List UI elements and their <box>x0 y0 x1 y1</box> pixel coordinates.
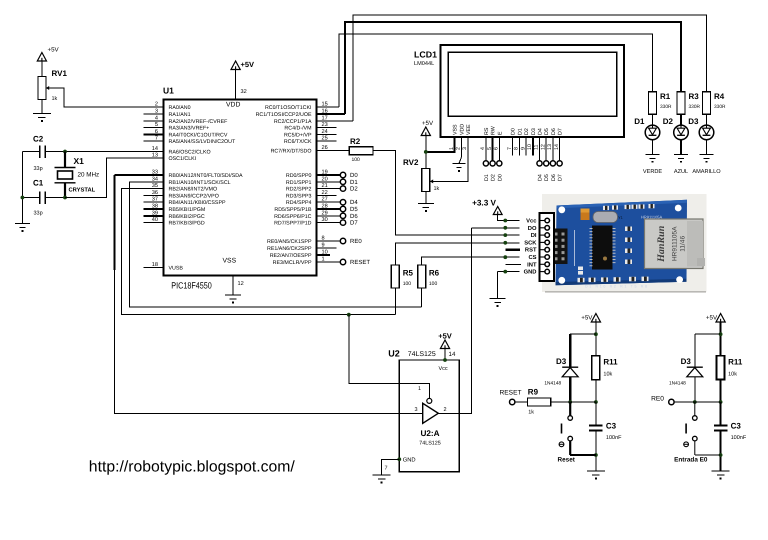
svg-text:7: 7 <box>507 147 513 150</box>
+5V power symbol at U1 VDD <box>231 61 240 70</box>
svg-text:D5: D5 <box>544 174 550 181</box>
+5V power symbol (Entrada E0 circuit) <box>716 314 725 323</box>
U1 pin 34 RB1/AN10/INT1/SCK/SCL <box>144 181 164 183</box>
U1 pin 29 RD6/SPP6/P1C <box>317 215 341 217</box>
svg-text:D0: D0 <box>511 128 517 135</box>
U1 pin 36 RB3/AN9/CCP2/VPO <box>144 194 164 196</box>
svg-text:Entrada E0: Entrada E0 <box>674 457 708 464</box>
svg-text:DI: DI <box>531 233 537 239</box>
svg-text:23: 23 <box>322 122 328 128</box>
U1 pin 6 RA4/T0CKI/C1OUT/RCV <box>144 133 164 135</box>
wire diode to junction (Entrada E0) <box>694 377 696 402</box>
microcontroller U1 PIC18F4550 <box>164 100 317 276</box>
ground below LED D2 <box>674 154 688 162</box>
svg-text:RA3/AN3/VREF+: RA3/AN3/VREF+ <box>169 126 210 132</box>
svg-text:100nF: 100nF <box>731 435 747 441</box>
wire RB0/SDI net horizontal <box>115 174 164 176</box>
diode D3 1N4148 (Reset) <box>562 367 578 377</box>
junction dot bottom (Entrada E0) <box>719 453 723 457</box>
wire R6 top to module CS <box>422 257 520 265</box>
svg-text:RA5/AN4/SS/LVDIN/C2OUT: RA5/AN4/SS/LVDIN/C2OUT <box>169 139 236 145</box>
wire RB0/SDI net to U2 input pin 3 <box>115 270 423 413</box>
U1 pin 5 RA3/AN3/VREF+ <box>144 127 164 129</box>
svg-text:VERDE: VERDE <box>643 169 663 175</box>
svg-text:40: 40 <box>152 217 158 223</box>
svg-text:D5: D5 <box>544 128 550 135</box>
svg-text:U2:A: U2:A <box>420 429 439 438</box>
module pin INT <box>540 263 545 265</box>
svg-text:26: 26 <box>322 145 328 151</box>
svg-text:RC4/D-/VM: RC4/D-/VM <box>284 126 311 132</box>
svg-text:RD7/SPP7/P1D: RD7/SPP7/P1D <box>274 221 312 227</box>
svg-text:330R: 330R <box>660 104 672 110</box>
wire LED D1 to ground <box>652 139 654 154</box>
svg-text:RB2/AN8/INT2/VMO: RB2/AN8/INT2/VMO <box>169 187 218 193</box>
svg-text:RD3/SPP3: RD3/SPP3 <box>286 193 312 199</box>
ground (Entrada E0) <box>712 471 730 479</box>
LCD display LCD1 LM044L <box>441 45 624 137</box>
svg-text:RA0/AN0: RA0/AN0 <box>169 105 191 111</box>
svg-text:1k: 1k <box>434 186 440 192</box>
wire junction to C3 (Entrada E0) <box>719 402 721 425</box>
wire R2 to module DI <box>373 151 520 236</box>
svg-text:330R: 330R <box>714 104 726 110</box>
U1 pin 13 OSC1/CLKI <box>144 157 164 159</box>
svg-text:RC1/T1OSI/CCP2/UOE: RC1/T1OSI/CCP2/UOE <box>256 112 312 118</box>
U1 pin 24 RC5/D+/VP <box>317 133 337 135</box>
LCD pin 10 stub <box>532 137 534 156</box>
svg-text:15: 15 <box>322 102 328 108</box>
svg-text:VUSB: VUSB <box>169 266 184 272</box>
svg-text:AMARILLO: AMARILLO <box>692 169 721 175</box>
svg-text:RC6/TX/CK: RC6/TX/CK <box>284 139 312 145</box>
svg-text:R9: R9 <box>528 388 539 397</box>
wire U2 output pin 2 to module DO <box>438 228 471 413</box>
module pin RST <box>540 249 545 251</box>
svg-text:2: 2 <box>456 147 462 150</box>
wire RV2 to ground <box>425 192 427 204</box>
crystal X1 <box>55 152 76 198</box>
capacitor C3 100nF (Entrada E0) <box>714 426 728 431</box>
svg-text:LM044L: LM044L <box>414 61 434 67</box>
svg-text:RST: RST <box>525 247 537 254</box>
wire RB1 net to R6 bottom <box>130 182 422 307</box>
svg-text:17: 17 <box>322 115 328 121</box>
wire LCD pin 6 to node D0 <box>498 137 500 161</box>
node RE0 <box>669 399 674 404</box>
svg-text:VSS: VSS <box>223 258 237 265</box>
svg-text:7: 7 <box>384 466 387 472</box>
U1 pin 23 RC4/D-/VM <box>317 127 337 129</box>
U1 pin 7 RA5/AN4/SS/LVDIN/C2OUT <box>144 140 164 142</box>
svg-text:D2: D2 <box>524 128 530 135</box>
U2 pin 14 Vcc <box>444 349 446 361</box>
svg-text:RE2/AN7/OESPP: RE2/AN7/OESPP <box>270 253 312 259</box>
svg-text:6: 6 <box>155 129 158 135</box>
ground below RV1 <box>33 114 51 122</box>
U1 pin 4 RA2/AN2/VREF-/CVREF <box>144 120 164 122</box>
module pin Vcc <box>540 220 545 222</box>
wire RV1 wiper to U1 pin 2 (RA0/AN0) <box>46 88 164 107</box>
svg-text:CRYSTAL: CRYSTAL <box>69 187 96 194</box>
junction dot C1 left rail <box>21 196 25 200</box>
svg-text:11: 11 <box>534 144 540 150</box>
svg-text:12: 12 <box>238 281 244 287</box>
wire R11 to junction (Reset) <box>595 380 597 403</box>
svg-text:1k: 1k <box>52 96 58 102</box>
wire left rail C2/C1 to ground <box>21 152 23 224</box>
U1 pin 20 RD1/SPP1 <box>317 181 341 183</box>
svg-text:D2: D2 <box>663 117 674 126</box>
svg-text:R11: R11 <box>603 358 618 367</box>
svg-text:RW: RW <box>491 126 497 135</box>
svg-text:28: 28 <box>322 204 328 210</box>
svg-text:C3: C3 <box>606 422 617 431</box>
wire R4 to LED D3 <box>706 114 708 125</box>
wire diode to junction (Reset) <box>569 377 571 402</box>
wire crystal bottom to U1 pin 13 (OSC1/CLKI) <box>65 158 164 198</box>
svg-text:+3.3 V: +3.3 V <box>472 199 496 208</box>
svg-text:1N4148: 1N4148 <box>544 381 561 387</box>
svg-text:100: 100 <box>403 281 412 287</box>
svg-text:D6: D6 <box>551 174 557 181</box>
junction dot crystal bottom <box>63 196 67 200</box>
wire LCD pin 14 to node D7 <box>559 137 561 161</box>
svg-text:8: 8 <box>514 147 520 150</box>
U1 pin 14 RA6/OSC2/CLKO <box>144 151 164 153</box>
wire C1 left <box>22 197 39 199</box>
U1 pin 38 RB5/KBI1/PGM <box>144 208 164 210</box>
push button (Reset) <box>559 402 572 455</box>
resistor R11 10k (Entrada E0) <box>717 356 725 380</box>
module pin DO <box>540 227 545 229</box>
ground below module GND <box>490 299 506 307</box>
wire R5 top to module SCK <box>395 243 519 265</box>
+5V power symbol at RV2 <box>421 127 430 136</box>
LCD pin 7 stub <box>512 137 514 156</box>
capacitor C3 100nF (Reset) <box>589 426 603 431</box>
svg-text:http://robotypic.blogspot.com/: http://robotypic.blogspot.com/ <box>89 459 296 476</box>
wire C3 to bottom row (Entrada E0) <box>719 431 721 471</box>
svg-text:19: 19 <box>322 170 328 176</box>
svg-text:4: 4 <box>155 115 158 121</box>
LED D2 <box>674 125 689 140</box>
wire R3 to LED D2 <box>680 114 682 125</box>
svg-text:DO: DO <box>528 225 537 232</box>
svg-text:14: 14 <box>152 146 158 152</box>
svg-text:1: 1 <box>418 386 421 392</box>
svg-text:U1: U1 <box>163 86 174 96</box>
svg-text:5: 5 <box>155 122 158 128</box>
svg-text:Y1: Y1 <box>618 215 624 220</box>
+5V power symbol at RV1 <box>37 53 46 62</box>
wire LED D2 to ground <box>680 139 682 154</box>
svg-text:36: 36 <box>152 190 158 196</box>
ground below C1/C2 <box>15 224 30 232</box>
wire LCD pin 13 to node D6 <box>552 137 554 161</box>
wire module DO from U2 output <box>472 227 520 229</box>
svg-text:RA4/T0CKI/C1OUT/RCV: RA4/T0CKI/C1OUT/RCV <box>169 132 228 138</box>
svg-text:RC2/CCP1/P1A: RC2/CCP1/P1A <box>274 119 312 125</box>
resistor R3 330R <box>677 92 685 115</box>
svg-text:RESET: RESET <box>500 390 522 397</box>
svg-text:33p: 33p <box>34 166 43 172</box>
svg-text:R4: R4 <box>714 92 725 101</box>
svg-text:1k: 1k <box>528 410 534 416</box>
svg-text:RV1: RV1 <box>52 69 68 78</box>
svg-text:+5V: +5V <box>48 47 60 54</box>
svg-text:38: 38 <box>152 204 158 210</box>
svg-text:39: 39 <box>152 210 158 216</box>
wire RV1 to ground <box>41 100 43 114</box>
wire button to ground rail (Reset) <box>570 454 596 456</box>
wire C2 right to node <box>45 151 65 153</box>
+5V power symbol at U2 <box>440 340 449 349</box>
U1 pin 3 RA1/AN1 <box>144 113 164 115</box>
svg-text:1N4148: 1N4148 <box>669 381 686 387</box>
svg-text:30: 30 <box>322 217 328 223</box>
svg-text:RB0/AN12/INT0/FLT0/SDI/SDA: RB0/AN12/INT0/FLT0/SDI/SDA <box>169 173 244 179</box>
svg-text:RD2/SPP2: RD2/SPP2 <box>286 187 312 193</box>
svg-text:33p: 33p <box>34 211 43 217</box>
svg-text:RB1/AN10/INT1/SCK/SCL: RB1/AN10/INT1/SCK/SCL <box>169 180 231 186</box>
wire LCD pin 2 VDD to ground <box>459 137 461 164</box>
svg-text:RC7/RX/DT/SDO: RC7/RX/DT/SDO <box>271 149 312 155</box>
wire U1 pin 15 RC0 to R1 <box>339 34 653 107</box>
wire +3.3V to module Vcc <box>498 214 520 221</box>
svg-text:22: 22 <box>322 190 328 196</box>
svg-text:GND: GND <box>403 457 416 464</box>
svg-text:R3: R3 <box>689 92 700 101</box>
wire RB2 net to R5 bottom <box>122 189 396 315</box>
svg-text:INT: INT <box>527 262 537 268</box>
wire +5V rail (Entrada E0) <box>719 322 721 356</box>
junction dot bottom (Reset) <box>594 453 598 457</box>
module pin CS <box>540 256 545 258</box>
svg-text:1: 1 <box>322 257 325 263</box>
svg-text:PIC18F4550: PIC18F4550 <box>171 281 212 291</box>
U1 pin 22 RD3/SPP3 <box>317 194 337 196</box>
U1 pin 40 RB7/KBI3/PGD <box>144 222 164 224</box>
wire U1 pin 17 RC2 to R4 <box>353 15 707 121</box>
junction dot SCK <box>503 241 507 245</box>
ground below LED D1 <box>646 154 660 162</box>
svg-text:D1: D1 <box>350 179 358 186</box>
module pin SCK <box>540 241 545 243</box>
svg-text:18: 18 <box>152 262 158 268</box>
svg-text:RE1/AN6/CK2SPP: RE1/AN6/CK2SPP <box>267 246 312 252</box>
svg-text:D7: D7 <box>558 128 564 135</box>
+5V power symbol (Reset circuit) <box>591 314 600 323</box>
svg-text:D0: D0 <box>497 174 503 181</box>
junction dot CS <box>503 255 507 259</box>
module INT stub <box>506 263 522 265</box>
svg-text:24: 24 <box>322 129 328 135</box>
svg-text:RB4/AN11/KBI0/CSSPP: RB4/AN11/KBI0/CSSPP <box>169 200 226 206</box>
wire junction row (Reset) <box>515 401 596 403</box>
junction dot RB2 net / U2 enable tap <box>347 313 351 317</box>
U1 pin 1 RE3/MCLR/VPP <box>317 261 341 263</box>
junction dot R11/Entrada E0 <box>719 400 723 404</box>
svg-text:D0: D0 <box>350 172 358 179</box>
svg-text:3: 3 <box>155 109 158 115</box>
LED D3 <box>699 125 714 140</box>
svg-text:D7: D7 <box>350 220 358 227</box>
ground below U1 VSS <box>225 295 241 303</box>
U1 pin 27 RD4/SPP4 <box>317 201 341 203</box>
junction dot +5V / LCD VSS <box>424 150 428 154</box>
svg-text:RD4/SPP4: RD4/SPP4 <box>286 200 312 206</box>
svg-text:RE0/AN5/CK1SPP: RE0/AN5/CK1SPP <box>267 239 312 245</box>
svg-text:13: 13 <box>547 144 553 150</box>
diode D3 1N4148 (Entrada E0) <box>687 367 703 377</box>
junction dot DI <box>503 233 507 237</box>
wire LCD pin 1 VSS to +5V rail <box>426 137 455 152</box>
svg-text:RB5/KBI1/PGM: RB5/KBI1/PGM <box>169 207 206 213</box>
U1 pin 33 RB0/AN12/INT0/FLT0/SDI/SDA <box>144 174 164 176</box>
wire LCD pin 5 to node D2 <box>492 137 494 161</box>
svg-text:10k: 10k <box>728 372 737 378</box>
U1 pin 2 RA0/AN0 <box>144 106 164 108</box>
wire C3 to bottom row (Reset) <box>595 431 597 471</box>
svg-text:X1: X1 <box>74 156 85 166</box>
wire U1 pin 16 RC1 to R3 (bold) <box>345 22 681 114</box>
junction dot diode/Reset <box>568 400 572 404</box>
svg-text:10: 10 <box>322 250 328 256</box>
svg-text:VSS: VSS <box>453 124 459 135</box>
svg-text:29: 29 <box>322 210 328 216</box>
svg-text:RC5/D+/VP: RC5/D+/VP <box>284 132 312 138</box>
svg-text:100: 100 <box>352 157 361 163</box>
wire to diode branch (Entrada E0) <box>695 333 721 335</box>
svg-text:D2: D2 <box>491 174 497 181</box>
svg-text:37: 37 <box>152 197 158 203</box>
svg-text:RD0/SPP0: RD0/SPP0 <box>286 173 312 179</box>
ethernet module photo (ENC28J60 with HanRun RJ45) <box>542 194 707 293</box>
push button (Entrada E0) <box>684 402 697 455</box>
U1 pin 37 RB4/AN11/KBI0/CSSPP <box>144 201 164 203</box>
wire LCD pin 12 to node D5 <box>545 137 547 161</box>
svg-text:R1: R1 <box>660 92 671 101</box>
svg-text:14: 14 <box>554 144 560 150</box>
svg-text:RD6/SPP6/P1C: RD6/SPP6/P1C <box>274 214 312 220</box>
svg-text:GND: GND <box>524 269 537 276</box>
module pin header connector <box>540 213 555 281</box>
svg-text:R2: R2 <box>350 137 361 146</box>
wire +5V to RV1 <box>41 61 43 77</box>
junction dot U2 Vcc pin <box>443 358 447 362</box>
svg-text:25: 25 <box>322 136 328 142</box>
svg-text:RE0: RE0 <box>651 396 664 403</box>
wire node to U1 pin 14 (RA6/OSC2) <box>65 151 164 153</box>
+3.3V power symbol <box>493 207 502 215</box>
U1 pin 15 RC0/T1OSO/T1CKI <box>317 106 340 108</box>
junction dot U2 GND pin <box>397 457 401 461</box>
svg-text:D5: D5 <box>350 206 358 213</box>
svg-text:32: 32 <box>241 89 247 95</box>
svg-text:RESET: RESET <box>350 259 370 266</box>
junction dot GND <box>503 270 507 274</box>
svg-text:74LS125: 74LS125 <box>408 351 436 358</box>
svg-text:RE0: RE0 <box>350 238 362 245</box>
svg-text:E: E <box>497 131 503 135</box>
svg-text:27: 27 <box>322 197 328 203</box>
wire RB0/SDI net vertical bold part <box>114 175 116 270</box>
svg-text:VDD: VDD <box>459 124 465 135</box>
LCD pin 9 stub <box>525 137 527 156</box>
resistor R2 <box>349 147 373 155</box>
svg-text:C1: C1 <box>33 179 44 188</box>
svg-text:RD5/SPP5/P1B: RD5/SPP5/P1B <box>274 207 312 213</box>
svg-text:RV2: RV2 <box>403 158 419 167</box>
svg-text:AZUL: AZUL <box>674 169 688 175</box>
resistor R9 1k <box>528 398 551 406</box>
wire button to ground rail (Entrada E0) <box>695 454 721 456</box>
svg-text:3: 3 <box>414 407 417 413</box>
module pin DI <box>540 234 545 236</box>
svg-text:D1: D1 <box>484 174 490 181</box>
ground below LCD VDD <box>453 164 466 172</box>
U1 pin 35 RB2/AN8/INT2/VMO <box>144 188 164 190</box>
svg-text:R5: R5 <box>403 269 414 278</box>
svg-text:+5V: +5V <box>581 315 593 322</box>
ground below LED D3 <box>700 154 714 162</box>
U1 pin 21 RD2/SPP2 <box>317 188 341 190</box>
svg-text:RB7/KBI3/PGD: RB7/KBI3/PGD <box>169 221 205 227</box>
resistor R4 330R <box>703 92 711 115</box>
svg-text:16: 16 <box>322 109 328 115</box>
wire R6 bottom to RB1 net <box>421 288 423 307</box>
svg-text:14: 14 <box>449 351 456 358</box>
wire LCD pin 4 to node D1 <box>485 137 487 161</box>
junction dot R11/Reset <box>594 400 598 404</box>
svg-text:7: 7 <box>155 136 158 142</box>
resistor R11 10k (Reset) <box>592 356 600 380</box>
svg-text:RA2/AN2/VREF-/CVREF: RA2/AN2/VREF-/CVREF <box>169 119 229 125</box>
U1 pin 16 RC1/T1OSI/CCP2/UOE <box>317 113 346 115</box>
svg-text:C3: C3 <box>731 422 742 431</box>
svg-text:D6: D6 <box>350 213 358 220</box>
wire C1 right to node <box>45 197 65 199</box>
svg-text:100nF: 100nF <box>606 435 622 441</box>
svg-text:D2: D2 <box>350 186 358 193</box>
svg-text:R11: R11 <box>728 358 743 367</box>
potentiometer RV1 <box>38 77 46 100</box>
wire LED D3 to ground <box>706 139 708 154</box>
svg-text:6: 6 <box>494 147 500 150</box>
svg-text:2: 2 <box>444 407 447 413</box>
ground (Reset) <box>587 471 605 479</box>
junction dot top (Entrada E0) <box>719 332 723 336</box>
svg-text:CS: CS <box>528 254 536 261</box>
svg-text:Reset: Reset <box>557 457 575 464</box>
junction dot top (Reset) <box>594 332 598 336</box>
wire R5 bottom to RB2 net <box>394 288 396 315</box>
U1 pin 12 VSS <box>232 276 234 296</box>
U1 pin 18 VUSB <box>144 267 164 269</box>
svg-text:11/46: 11/46 <box>680 236 687 252</box>
svg-text:RD1/SPP1: RD1/SPP1 <box>286 180 312 186</box>
U1 pin 32 VDD <box>235 70 237 100</box>
svg-text:RA6/OSC2/CLKO: RA6/OSC2/CLKO <box>169 150 211 156</box>
buffer U2 74LS125 <box>399 360 459 472</box>
wire junction to C3 (Reset) <box>595 402 597 425</box>
wire LCD pin 3 VEE to RV2 wiper <box>430 137 468 181</box>
svg-text:21: 21 <box>322 183 328 189</box>
wire R1 to LED D1 <box>652 114 654 125</box>
svg-text:VDD: VDD <box>226 102 240 109</box>
module pin GND <box>540 271 545 273</box>
